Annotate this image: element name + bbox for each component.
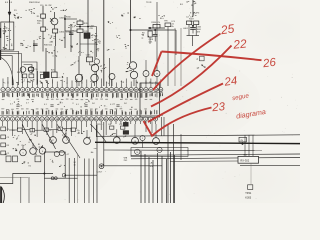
bus wire H2 heavy [95, 142, 300, 143]
bus wire L-bend 1 [0, 52, 19, 86]
capacitor C330 [35, 156, 41, 162]
module M301 pin circle 2 [143, 71, 149, 77]
node dots y26.5 [79, 26, 81, 28]
vertical wire x89 [88, 159, 90, 204]
wires descending from bottom pins [3, 124, 107, 137]
edge mark left [0, 28, 2, 38]
wire [79, 19, 81, 21]
svg-text:25: 25 [219, 21, 235, 37]
extra label smudges top-left [25, 8, 34, 14]
plus terminal [99, 164, 104, 169]
svg-text:22: 22 [232, 36, 248, 51]
wire CN302 stub [242, 142, 244, 144]
red annotation line to 22 [151, 46, 232, 107]
left resistor ladder [1, 127, 9, 155]
svg-text:C30: C30 [34, 154, 37, 156]
test point TP41 box [248, 185, 253, 190]
svg-text:TP8: TP8 [164, 21, 167, 23]
svg-text:1k: 1k [46, 29, 48, 31]
wire [54, 12, 56, 18]
resistor R319 dark [44, 72, 50, 78]
junction box JB301 [44, 152, 65, 178]
wire [45, 48, 47, 72]
node at 150,28 [149, 27, 151, 29]
labels above top pins [3, 79, 161, 84]
capacitor C343 dark [123, 122, 128, 126]
resistor R317 [40, 75, 45, 79]
extra capacitor symbols top-left [33, 43, 38, 45]
vertical wire x93 [93, 159, 95, 204]
wire x176 [175, 30, 177, 55]
resistor R321 [87, 57, 93, 62]
wire curve 2 [42, 124, 56, 149]
transistor Q308 [130, 71, 137, 78]
bus wire L-bend 2 [0, 54, 22, 74]
relay K301 box [131, 148, 188, 157]
svg-text:120 56 2W: 120 56 2W [40, 5, 51, 7]
bus wire L-bend 3 [0, 56, 12, 85]
wire bottom edge extension [65, 177, 77, 179]
svg-text:K303: K303 [245, 197, 251, 200]
wire curve to pin 3 [1, 58, 13, 86]
IC301 top pin row [1, 84, 163, 92]
wire stubs mid [116, 129, 118, 137]
board box RX-302 [238, 156, 259, 163]
svg-text:C11: C11 [34, 69, 37, 71]
svg-text:R315: R315 [17, 72, 22, 74]
resistor R330 [153, 24, 160, 28]
wire curve 1 [22, 124, 37, 150]
resistor R315 [22, 74, 27, 78]
relay circle 18 [135, 149, 140, 154]
svg-text:C41: C41 [108, 124, 111, 126]
svg-text:R66: R66 [40, 72, 43, 74]
pin circle 9 low [140, 135, 145, 140]
svg-text:26: 26 [261, 57, 277, 71]
wire curve 4 [90, 124, 107, 143]
svg-text:120: 120 [37, 23, 40, 25]
svg-text:C306: C306 [59, 31, 65, 33]
wires transistor cluster [78, 56, 80, 74]
bus wire L-bend 4 [22, 62, 37, 85]
module M301 box outline [140, 83, 160, 117]
vertical bundle B [141, 151, 175, 203]
bus wire H4 [131, 154, 300, 155]
wire vertical 65 [64, 15, 66, 48]
wire inside TB301 [4, 23, 6, 50]
node at 130,30 [130, 29, 132, 31]
resistor R344 [148, 31, 152, 37]
wire faint y177 [0, 177, 28, 179]
extra bottom-left smudges [13, 148, 18, 151]
wire links [65, 18, 77, 20]
label misc [92, 39, 100, 44]
vertical wire x77 gray [77, 155, 79, 203]
node on heavy bus [242, 143, 244, 145]
svg-text:1k: 1k [142, 35, 144, 37]
vertical wire x84 [84, 159, 86, 204]
svg-text:C4: C4 [12, 130, 14, 132]
wire feed top-left [9, 0, 11, 12]
resistor R313 dark [84, 33, 90, 39]
svg-text:R330 4.7k: R330 4.7k [151, 22, 160, 24]
resistor R311 [77, 21, 83, 25]
bus wire H1 [97, 135, 300, 137]
capacitor C312 [77, 29, 83, 33]
component row y156 [6, 156, 11, 162]
node at 193,26 [192, 25, 194, 27]
svg-text:C42: C42 [119, 124, 122, 126]
wire bottom link [187, 35, 200, 37]
component row below pins [12, 127, 80, 143]
diode D301 [50, 18, 53, 22]
resistor R309 [53, 29, 58, 33]
wire R344 down [149, 37, 151, 44]
svg-text:24: 24 [223, 75, 238, 89]
wire R305 branch [42, 6, 44, 14]
transistor Q318 [132, 137, 139, 144]
module M301 pin circle 23 [154, 71, 160, 77]
module wires [145, 77, 147, 85]
svg-text:H301: H301 [183, 28, 188, 30]
label pair [21, 79, 34, 82]
svg-text:R7: R7 [49, 130, 51, 132]
svg-text:C315: C315 [86, 54, 91, 56]
svg-text:8.8 8.8: 8.8 8.8 [5, 2, 13, 4]
transistor Q312 [30, 148, 37, 155]
vertical wire x44 down [43, 178, 45, 203]
wire vertical x109 [109, 58, 111, 86]
wire x96.5 [96, 27, 98, 58]
node at 155,30 [154, 29, 156, 31]
svg-text:10: 10 [74, 164, 76, 166]
capacitor C305 [190, 27, 196, 29]
capacitor C310 [29, 67, 34, 70]
red annotation line to 25 [153, 34, 221, 91]
transistor Q322 in box [59, 150, 64, 155]
IC301 body bottom edge [0, 114, 163, 116]
wire vertical x104 [103, 0, 105, 86]
transistor stub wires [22, 146, 24, 149]
transistor Q311 [20, 149, 27, 156]
wire x29 down [28, 177, 30, 203]
connector CN302 [239, 137, 246, 142]
label near Q307 [126, 62, 132, 72]
transistor Q319 [153, 138, 160, 145]
wires C324 L302 [188, 25, 190, 36]
wire down from node [130, 30, 132, 62]
red annotation line to 26 horizontal stroke [162, 52, 262, 61]
wire J301 down [9, 16, 11, 22]
svg-text:17: 17 [52, 140, 54, 142]
svg-text:18: 18 [136, 152, 138, 154]
svg-text:TP-2F: TP-2F [146, 2, 152, 4]
bus wire H3 [104, 149, 262, 152]
inductor L302 [194, 21, 199, 25]
wire L route bottom-left [0, 174, 53, 184]
svg-text:R302 R304: R302 R304 [29, 2, 40, 4]
capacitor C318 [153, 33, 158, 35]
labels around Q304 [100, 64, 106, 72]
relay circle 14 [157, 147, 162, 152]
extra label smudges top-middle [108, 21, 113, 24]
transistor Q317 [114, 137, 121, 144]
bus wire H5 [131, 158, 300, 159]
speckle noise [4, 2, 300, 200]
svg-text:R318 22k: R318 22k [44, 45, 52, 47]
resistor R320 [52, 72, 58, 78]
IC301 top pin name columns [2, 93, 163, 100]
transistor Q305 [91, 74, 98, 81]
transistor Q321 in box [54, 151, 59, 156]
resistor R305 [41, 14, 46, 18]
label right of R313 [94, 33, 97, 40]
transistor Q304 [91, 64, 98, 71]
svg-text:B25: B25 [51, 70, 54, 72]
svg-text:V-OUT: V-OUT [96, 171, 103, 173]
svg-text:C9: C9 [7, 137, 9, 139]
transistor Q306 [94, 59, 99, 64]
svg-text:TP41: TP41 [245, 192, 252, 195]
svg-text:10: 10 [64, 129, 66, 131]
svg-text:K1: K1 [29, 165, 31, 167]
IC301 mid band labels [10, 100, 133, 107]
wire [42, 18, 44, 27]
shield bus gray 1 [174, 28, 176, 86]
red annotation line to 26 rising stroke [152, 52, 162, 77]
cluster labels x44-58 y40-56 [47, 50, 58, 56]
coupler circles on box bottom [51, 177, 54, 180]
bus wire H6 [100, 165, 162, 167]
vertical wire x103 lower [103, 122, 105, 166]
extra horizontal link wires bottom-left [9, 129, 18, 131]
svg-text:0.01: 0.01 [149, 42, 153, 44]
wire horizontal y30 [131, 29, 177, 31]
wire from top x88 [87, 0, 89, 57]
transistor Q302 [28, 67, 34, 73]
wire y44 link [80, 43, 97, 45]
vertical wire x74 [73, 158, 75, 203]
svg-text:4.7: 4.7 [67, 154, 70, 156]
svg-text:9: 9 [142, 138, 143, 140]
resistor R316 [29, 74, 34, 78]
svg-text:2SC: 2SC [124, 160, 128, 162]
node at box entry [44, 173, 46, 175]
wire horizontal y26.5 [76, 26, 97, 28]
vertical wire x168 [167, 124, 169, 203]
wire to TP41 [250, 163, 252, 184]
vertical wire x181 [180, 134, 182, 160]
wire TP8 down [167, 27, 169, 86]
wire [42, 31, 44, 51]
svg-text:23: 23 [211, 101, 226, 114]
transistor Q314 [50, 137, 57, 144]
dark component blob [123, 131, 128, 135]
svg-text:22u: 22u [76, 130, 79, 132]
IC301 bottom pin row [1, 117, 158, 124]
module bottom wires [145, 121, 147, 132]
page curl mark bottom-left [0, 187, 2, 203]
transistor Q315 [63, 137, 70, 144]
red annotation line to 23 [144, 108, 212, 136]
bus wire L-bend 5 [24, 65, 32, 75]
extra wires rising from top pins [8, 71, 97, 84]
transistor Q313 [39, 148, 46, 155]
wire vertical x130 [130, 0, 132, 30]
svg-text:R3: R3 [7, 145, 9, 147]
vertical wire x69 [68, 158, 70, 203]
transistor Q316 [84, 138, 91, 145]
svg-text:8.8: 8.8 [5, 154, 8, 156]
IC301 body top edge [0, 91, 163, 93]
transistor Q300 [51, 18, 58, 25]
capacitor C324 [187, 21, 192, 25]
node junction [64, 18, 66, 20]
transistor Q303 [75, 74, 82, 81]
svg-text:R23: R23 [97, 124, 100, 126]
red annotation line to 24 [148, 84, 223, 123]
vertical wire x97 [96, 125, 98, 203]
svg-text:R5: R5 [37, 16, 39, 18]
wire y175 [64, 174, 97, 176]
transistor Q307 [129, 62, 136, 69]
svg-text:23: 23 [156, 74, 158, 76]
stub wires to PB box [244, 135, 246, 156]
resistor R306 [41, 27, 46, 31]
svg-text:C2: C2 [7, 129, 9, 131]
terminal block TB301 [1, 22, 14, 50]
wire curve 3 [57, 124, 80, 158]
transistor Q320 [109, 74, 115, 80]
wire x164 from band [163, 117, 165, 136]
wire horizontal y28 [148, 27, 165, 29]
wire stubs Q307 Q308 [133, 79, 135, 86]
extra wire top-left [70, 25, 72, 52]
wire x161 from band [161, 117, 163, 136]
vertical wire x173 [173, 124, 175, 203]
wire x20.8 down [20, 177, 22, 203]
IC301 bottom pin name columns [1, 108, 157, 114]
shield bus gray 2 [180, 28, 182, 86]
transistor Q301 [20, 67, 26, 73]
wire vertical x193 [192, 0, 194, 16]
connector arrow J301 [8, 12, 11, 16]
svg-text:RX-302: RX-302 [240, 158, 249, 162]
